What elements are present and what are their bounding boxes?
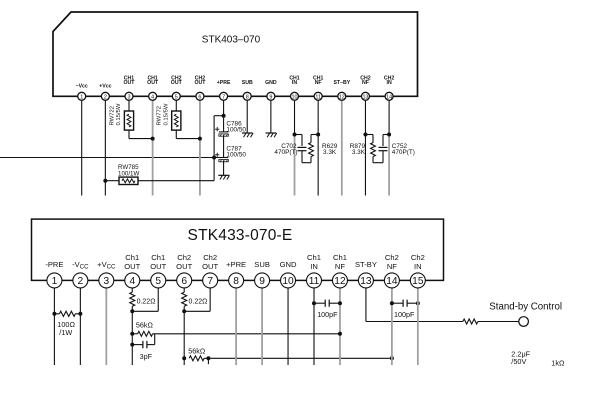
pin 11 of STK403-070 (CH1 NF) bbox=[313, 75, 323, 100]
wire pin5 to RW772 bbox=[175, 96, 177, 111]
svg-text:+Vcc: +Vcc bbox=[99, 83, 111, 89]
pin 10 of STK403-070 (CH1 IN) bbox=[289, 75, 299, 100]
IC STK403-070 part number label bbox=[202, 35, 261, 46]
svg-text:NF: NF bbox=[335, 262, 345, 271]
svg-text:OUT: OUT bbox=[147, 80, 159, 86]
pin 10 of STK433-070-E (GND) bbox=[280, 260, 297, 288]
svg-text:100/1W: 100/1W bbox=[118, 171, 139, 178]
pin 2 of STK433-070-E (-VCC) bbox=[72, 260, 89, 288]
svg-text:100/50: 100/50 bbox=[226, 152, 246, 159]
wire ST-BY to control bbox=[366, 321, 463, 323]
pin 4 of STK433-070-E (Ch1 OUT) bbox=[124, 253, 140, 288]
RW722 value label bbox=[109, 103, 122, 125]
svg-text:7: 7 bbox=[222, 94, 225, 100]
svg-text:13: 13 bbox=[360, 276, 372, 287]
wire pin10 GND down bbox=[287, 280, 289, 365]
svg-text:470P(T): 470P(T) bbox=[392, 149, 415, 156]
svg-text:OUT: OUT bbox=[176, 262, 192, 271]
100ohm value label bbox=[57, 320, 75, 337]
wire pin4 down bbox=[131, 306, 133, 365]
capacitor C702 bbox=[298, 147, 307, 150]
wire stand-by resistor to terminal bbox=[478, 321, 519, 323]
capacitor 100pF ch2 bbox=[403, 300, 407, 307]
op-amp hybrid IC STK403-070 outline bbox=[53, 12, 418, 96]
op-amp hybrid IC STK433-070-E outline bbox=[32, 219, 444, 280]
3pF value label bbox=[140, 352, 153, 361]
wire 56k ch2 to Ch2 NF bbox=[204, 357, 392, 359]
wire pin11 CH1 NF down bbox=[317, 96, 319, 195]
pin 14 of STK433-070-E (Ch2 NF) bbox=[384, 253, 399, 288]
junction 100pF ch1 right bbox=[338, 301, 342, 305]
svg-text:IN: IN bbox=[387, 80, 392, 86]
svg-text:8: 8 bbox=[246, 94, 249, 100]
wire pin2 +Vcc down bbox=[104, 96, 106, 195]
svg-text:100pF: 100pF bbox=[394, 310, 415, 319]
terminal Stand-by Control bbox=[519, 317, 529, 327]
wire pin13 CH2 NF down bbox=[364, 96, 366, 195]
svg-text:ST-BY: ST-BY bbox=[355, 260, 377, 269]
pin 8 of STK433-070-E (+PRE) bbox=[226, 260, 246, 288]
svg-text:0.22Ω: 0.22Ω bbox=[189, 299, 208, 306]
svg-text:OUT: OUT bbox=[194, 80, 206, 86]
junction 56k ch2 right bbox=[206, 356, 210, 360]
capacitor 3pF bbox=[143, 341, 147, 348]
wire 56k ch1 to Ch1 NF bbox=[153, 333, 340, 335]
junction pin4/RW722 bbox=[151, 137, 155, 141]
svg-text:SUB: SUB bbox=[242, 80, 253, 86]
svg-text:0.15/5W: 0.15/5W bbox=[163, 103, 169, 125]
svg-text:GND: GND bbox=[265, 80, 277, 86]
svg-text:5: 5 bbox=[155, 276, 161, 287]
svg-text:3: 3 bbox=[127, 94, 130, 100]
svg-text:470P(T): 470P(T) bbox=[274, 149, 297, 156]
pin 7 of STK403-070 (+PRE) bbox=[217, 80, 231, 100]
junction +PRE left-edge wire bbox=[212, 156, 216, 160]
wire pin5 lead bbox=[157, 280, 159, 311]
junction 56k ch2 left bbox=[182, 356, 186, 360]
svg-text:OUT: OUT bbox=[202, 262, 218, 271]
svg-text:4: 4 bbox=[151, 94, 154, 100]
svg-text:OUT: OUT bbox=[171, 80, 183, 86]
pin 3 of STK403-070 (CH1 OUT) bbox=[124, 75, 136, 100]
pin 14 of STK403-070 (CH2 IN) bbox=[384, 75, 394, 100]
pin 12 of STK403-070 (ST–BY) bbox=[333, 80, 350, 100]
svg-text:1kΩ: 1kΩ bbox=[551, 359, 565, 368]
Stand-by Control label bbox=[489, 301, 562, 312]
junction 100pF ch1 left bbox=[312, 301, 316, 305]
svg-text:OUT: OUT bbox=[124, 80, 136, 86]
ground below pin8 bbox=[242, 133, 253, 137]
svg-text:/50V: /50V bbox=[511, 357, 526, 366]
svg-text:5: 5 bbox=[175, 94, 178, 100]
wire C752 top lead bbox=[383, 135, 389, 147]
junction 100ohm left bbox=[52, 312, 56, 316]
56k ch1 value label bbox=[136, 321, 154, 330]
svg-text:14: 14 bbox=[386, 276, 398, 287]
junction pin6 node bbox=[182, 309, 186, 313]
wire C702 bottom lead bbox=[302, 151, 311, 163]
wire C702 top lead bbox=[295, 135, 302, 147]
wire pin6 down bbox=[183, 306, 185, 365]
pin 1 of STK433-070-E (-PRE) bbox=[45, 260, 63, 288]
wire pin7 jog left bbox=[214, 115, 223, 117]
svg-text:GND: GND bbox=[280, 260, 297, 269]
wire pin14 CH2 IN down (gray) bbox=[388, 135, 390, 196]
svg-text:3pF: 3pF bbox=[140, 352, 153, 361]
svg-text:3: 3 bbox=[103, 276, 109, 287]
svg-text:+PRE: +PRE bbox=[217, 80, 231, 86]
capacitor 100pF ch1 bbox=[325, 300, 329, 307]
svg-text:11: 11 bbox=[309, 276, 320, 287]
pin 13 of STK433-070-E (ST-BY) bbox=[355, 260, 377, 288]
wire 3pF leads bbox=[132, 334, 154, 345]
wire RW772 to pin6 node bbox=[176, 130, 200, 139]
svg-text:STK433-070-E: STK433-070-E bbox=[188, 227, 293, 244]
wire +PRE vertical bbox=[213, 116, 215, 181]
wire C752 bottom lead bbox=[382, 151, 384, 163]
svg-text:NF: NF bbox=[387, 262, 397, 271]
svg-text:RW772: RW772 bbox=[157, 106, 163, 126]
wire pin8 SUB to ground bbox=[246, 96, 248, 133]
svg-text:3.3K: 3.3K bbox=[352, 149, 366, 156]
svg-text:14: 14 bbox=[386, 94, 392, 100]
wire C786 top lead bbox=[223, 116, 225, 132]
ground below pin9 bbox=[266, 133, 277, 137]
ground below C787 bbox=[218, 175, 229, 179]
svg-text:OUT: OUT bbox=[124, 262, 140, 271]
svg-text:11: 11 bbox=[315, 94, 321, 100]
svg-text:0.15/5W: 0.15/5W bbox=[116, 103, 122, 125]
svg-text:6: 6 bbox=[181, 276, 187, 287]
wire RW722 to pin4 node bbox=[129, 130, 153, 139]
svg-text:9: 9 bbox=[269, 94, 272, 100]
wire pin1 -PRE down bbox=[53, 280, 55, 365]
100pF ch1 value label bbox=[317, 310, 338, 319]
resistor 56k ch2 bbox=[189, 356, 204, 361]
wire R629 top lead bbox=[311, 135, 318, 143]
wire pin2 -VCC down bbox=[79, 280, 81, 365]
resistor R879 bbox=[371, 143, 376, 157]
resistor 0.22ohm ch2 bbox=[182, 292, 187, 306]
IC STK433-070-E part number label bbox=[188, 227, 293, 244]
junction 56k ch1 left bbox=[130, 332, 134, 336]
svg-text:15: 15 bbox=[412, 276, 424, 287]
wire pin1 -Vcc down bbox=[81, 96, 83, 195]
R879 value label bbox=[350, 143, 366, 156]
svg-text:Stand-by Control: Stand-by Control bbox=[489, 301, 562, 312]
C786 value label bbox=[226, 120, 246, 133]
pin 2 of STK403-070 (+Vcc) bbox=[99, 83, 111, 100]
svg-text:1: 1 bbox=[52, 276, 58, 287]
svg-text:100pF: 100pF bbox=[317, 310, 338, 319]
wire pin12 Ch1 NF down (gray) bbox=[339, 280, 341, 365]
capacitor C752 bbox=[379, 147, 388, 150]
junction pin13 node bbox=[363, 133, 367, 137]
junction 100pF ch2 right bbox=[416, 301, 420, 305]
resistor R629 bbox=[309, 143, 314, 157]
100pF ch2 value label bbox=[394, 310, 415, 319]
pin 12 of STK433-070-E (Ch1 NF) bbox=[332, 253, 347, 288]
resistor RW785 bbox=[119, 177, 138, 184]
svg-text:-PRE: -PRE bbox=[45, 260, 63, 269]
wire pin4 lead bbox=[131, 280, 133, 292]
svg-text:/1W: /1W bbox=[59, 328, 72, 337]
pin 7 of STK433-070-E (Ch2 OUT) bbox=[202, 253, 218, 288]
svg-text:+PRE: +PRE bbox=[226, 260, 246, 269]
svg-text:RW722: RW722 bbox=[109, 106, 115, 126]
svg-text:2: 2 bbox=[78, 276, 84, 287]
wire RW785 to +PRE vertical bbox=[138, 180, 214, 182]
svg-text:56kΩ: 56kΩ bbox=[136, 321, 154, 330]
junction 56k ch2 at Ch2 NF bbox=[390, 356, 394, 360]
junction pin7 node bbox=[222, 114, 226, 118]
C752 value label bbox=[392, 143, 415, 156]
pin 3 of STK433-070-E (+VCC) bbox=[97, 260, 116, 288]
0.22ohm ch1 value label bbox=[137, 299, 156, 306]
wire pin2 to RW785 bbox=[105, 180, 119, 182]
svg-text:−Vcc: −Vcc bbox=[76, 83, 88, 89]
wire pin3 to RW722 bbox=[128, 96, 130, 111]
resistor stand-by bbox=[463, 319, 478, 324]
wire pin6 lead bbox=[183, 280, 185, 292]
junction pin4 node bbox=[130, 309, 134, 313]
junction pin11 node bbox=[316, 133, 320, 137]
svg-text:NF: NF bbox=[315, 80, 322, 86]
wire pin4 CH1 OUT down (gray) bbox=[152, 96, 154, 195]
svg-text:9: 9 bbox=[259, 276, 265, 287]
RW785 value label bbox=[118, 164, 139, 178]
pin 9 of STK433-070-E (SUB) bbox=[254, 260, 270, 288]
svg-text:12: 12 bbox=[339, 94, 345, 100]
junction pin2/RW785 bbox=[103, 179, 107, 183]
0.22ohm ch2 value label bbox=[189, 299, 208, 306]
wire pin12 ST-BY down (gray) bbox=[341, 96, 343, 195]
svg-text:ST–BY: ST–BY bbox=[333, 80, 350, 86]
wire pin10 CH1 IN down (gray) bbox=[294, 135, 296, 196]
resistor 56k ch1 bbox=[138, 331, 153, 336]
56k ch2 value label bbox=[188, 347, 206, 356]
svg-text:6: 6 bbox=[198, 94, 201, 100]
junction Ch1 NF feedback bbox=[338, 332, 342, 336]
wire pin9 GND to ground bbox=[270, 96, 272, 133]
junction pin6/RW772 bbox=[198, 137, 202, 141]
wire R879 top lead bbox=[365, 135, 373, 143]
C787 value label bbox=[226, 145, 246, 158]
2.2uF capacitor value label (cropped) bbox=[511, 349, 530, 366]
wire pin15 Ch2 IN down (gray) bbox=[417, 280, 419, 365]
svg-text:13: 13 bbox=[362, 94, 368, 100]
svg-text:4: 4 bbox=[129, 276, 135, 287]
junction 100ohm right bbox=[78, 312, 82, 316]
wire R629 bottom lead bbox=[310, 157, 312, 163]
wire pin7 +PRE down bbox=[223, 96, 225, 115]
resistor RW722 bbox=[124, 111, 133, 130]
wire 0.22 ch2 to pin7 bbox=[184, 310, 210, 312]
svg-text:12: 12 bbox=[334, 276, 346, 287]
svg-text:1: 1 bbox=[80, 94, 83, 100]
junction pin10 node bbox=[293, 133, 297, 137]
resistor 0.22ohm ch1 bbox=[130, 292, 135, 306]
R629 value label bbox=[322, 143, 338, 156]
svg-text:2: 2 bbox=[104, 94, 107, 100]
RW772 value label bbox=[157, 103, 170, 125]
junction 100pF ch2 left bbox=[390, 301, 394, 305]
wire 56k ch2 stub bbox=[207, 358, 209, 364]
pin 15 of STK433-070-E (Ch2 IN) bbox=[410, 253, 425, 288]
svg-text:SUB: SUB bbox=[254, 260, 270, 269]
capacitor C787 bbox=[215, 153, 228, 162]
wire pin8 +PRE down (gray) bbox=[235, 280, 237, 365]
junction pin14 node bbox=[387, 133, 391, 137]
wire pin3 +VCC down (gray) bbox=[105, 280, 107, 365]
svg-text:8: 8 bbox=[233, 276, 239, 287]
wire C786 to C787 bbox=[223, 135, 225, 157]
pin 13 of STK403-070 (CH2 NF) bbox=[360, 75, 370, 100]
resistor RW772 bbox=[172, 111, 181, 130]
wire pin6 CH2 OUT down (gray) bbox=[199, 96, 201, 195]
svg-text:3.3K: 3.3K bbox=[323, 149, 337, 156]
wire pin9 SUB down (gray) bbox=[261, 280, 263, 365]
wire 0.22 ch1 to pin5 bbox=[132, 310, 158, 312]
wire pin14 CH2 IN down bbox=[388, 96, 390, 134]
svg-text:10: 10 bbox=[282, 276, 294, 287]
pin 9 of STK403-070 (GND) bbox=[265, 80, 277, 100]
pin 11 of STK433-070-E (Ch1 IN) bbox=[307, 253, 322, 288]
wire pin10 CH1 IN down bbox=[294, 96, 296, 134]
pin 6 of STK403-070 (CH2 OUT) bbox=[194, 75, 206, 100]
wire 100pF ch1 leads bbox=[314, 302, 340, 304]
wire pin11 Ch1 IN down bbox=[313, 280, 315, 365]
pin 5 of STK433-070-E (Ch1 OUT) bbox=[150, 253, 166, 288]
wire pin13 ST-BY down bbox=[365, 280, 367, 321]
pin 8 of STK403-070 (SUB) bbox=[242, 80, 253, 100]
svg-text:IN: IN bbox=[310, 262, 318, 271]
svg-text:0.22Ω: 0.22Ω bbox=[137, 299, 156, 306]
wire pin14 Ch2 NF down (gray) bbox=[391, 280, 393, 365]
pin 4 of STK403-070 (CH1 OUT) bbox=[147, 75, 159, 100]
svg-text:56kΩ: 56kΩ bbox=[188, 347, 206, 356]
wire R879 bottom lead bbox=[373, 157, 383, 163]
svg-text:IN: IN bbox=[414, 262, 422, 271]
wire 56k ch1 left lead bbox=[132, 333, 137, 335]
svg-text:10: 10 bbox=[292, 94, 298, 100]
capacitor C786 bbox=[215, 127, 228, 136]
resistor 100ohm 1W bbox=[59, 311, 75, 316]
junction 3pF left bbox=[130, 343, 134, 347]
svg-text:OUT: OUT bbox=[150, 262, 166, 271]
wire 100pF ch2 leads bbox=[392, 302, 418, 304]
pin 1 of STK403-070 (−Vcc) bbox=[76, 83, 88, 100]
wire +PRE net to left edge bbox=[0, 157, 219, 159]
1k resistor value label (cropped) bbox=[551, 359, 565, 368]
pin 6 of STK433-070-E (Ch2 OUT) bbox=[176, 253, 192, 288]
C702 value label bbox=[274, 143, 297, 156]
wire C787 to ground bbox=[223, 160, 225, 175]
svg-text:7: 7 bbox=[207, 276, 213, 287]
wire 100ohm leads bbox=[54, 313, 80, 315]
pin 5 of STK403-070 (CH2 OUT) bbox=[171, 75, 183, 100]
wire pin7 lead bbox=[209, 280, 211, 311]
svg-text:STK403–070: STK403–070 bbox=[202, 35, 261, 46]
svg-text:IN: IN bbox=[292, 80, 297, 86]
svg-text:NF: NF bbox=[362, 80, 369, 86]
